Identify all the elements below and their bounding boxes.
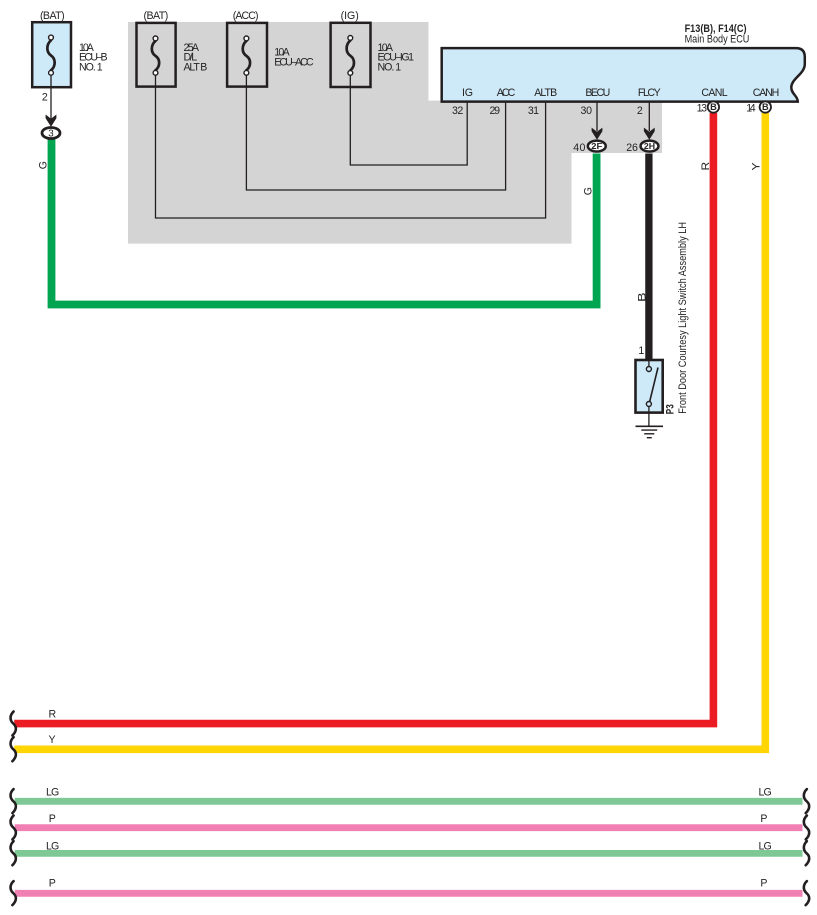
svg-text:P: P	[760, 813, 767, 825]
svg-text:(IG): (IG)	[341, 10, 359, 22]
svg-text:NO. 1: NO. 1	[378, 61, 402, 73]
svg-text:G: G	[37, 161, 49, 169]
svg-text:FLCY: FLCY	[638, 87, 661, 99]
svg-text:ALTB: ALTB	[534, 87, 557, 99]
svg-text:Y: Y	[750, 163, 762, 171]
svg-text:IG: IG	[462, 87, 473, 99]
svg-text:ACC: ACC	[497, 87, 516, 99]
svg-text:CANH: CANH	[753, 87, 780, 99]
svg-text:CANL: CANL	[701, 87, 727, 99]
svg-text:R: R	[700, 161, 712, 170]
svg-text:13: 13	[697, 102, 707, 114]
svg-text:1: 1	[638, 345, 644, 357]
svg-text:Y: Y	[49, 734, 56, 746]
svg-text:B: B	[710, 102, 717, 112]
svg-text:P3: P3	[665, 404, 677, 414]
svg-text:LG: LG	[759, 787, 772, 799]
svg-text:3: 3	[48, 129, 54, 140]
svg-text:2: 2	[42, 91, 48, 103]
svg-text:40: 40	[573, 142, 585, 154]
svg-text:2F: 2F	[591, 141, 602, 151]
svg-text:B: B	[636, 293, 648, 302]
svg-text:(BAT): (BAT)	[144, 10, 169, 22]
svg-text:R: R	[49, 709, 57, 721]
svg-text:2: 2	[637, 105, 643, 117]
svg-text:P: P	[49, 813, 56, 825]
svg-text:LG: LG	[46, 840, 59, 852]
svg-text:(ACC): (ACC)	[233, 10, 259, 22]
svg-text:NO. 1: NO. 1	[79, 61, 103, 73]
svg-text:26: 26	[626, 142, 638, 154]
svg-text:B: B	[762, 102, 769, 112]
svg-text:Front Door Courtesy Light Swit: Front Door Courtesy Light Switch Assembl…	[677, 222, 689, 414]
svg-text:G: G	[582, 187, 594, 195]
svg-text:30: 30	[581, 105, 593, 117]
svg-text:LG: LG	[759, 840, 772, 852]
svg-text:32: 32	[452, 105, 463, 117]
svg-text:29: 29	[490, 105, 501, 117]
svg-text:LG: LG	[46, 787, 59, 799]
svg-text:ALT B: ALT B	[184, 61, 208, 73]
svg-text:BECU: BECU	[585, 87, 610, 99]
svg-text:2H: 2H	[644, 141, 655, 151]
svg-text:14: 14	[746, 102, 755, 114]
svg-text:ECU–ACC: ECU–ACC	[274, 56, 314, 68]
svg-text:(BAT): (BAT)	[40, 10, 65, 22]
svg-text:31: 31	[528, 105, 539, 117]
svg-text:Main Body ECU: Main Body ECU	[685, 34, 750, 46]
svg-text:P: P	[760, 877, 767, 889]
svg-text:P: P	[49, 877, 56, 889]
